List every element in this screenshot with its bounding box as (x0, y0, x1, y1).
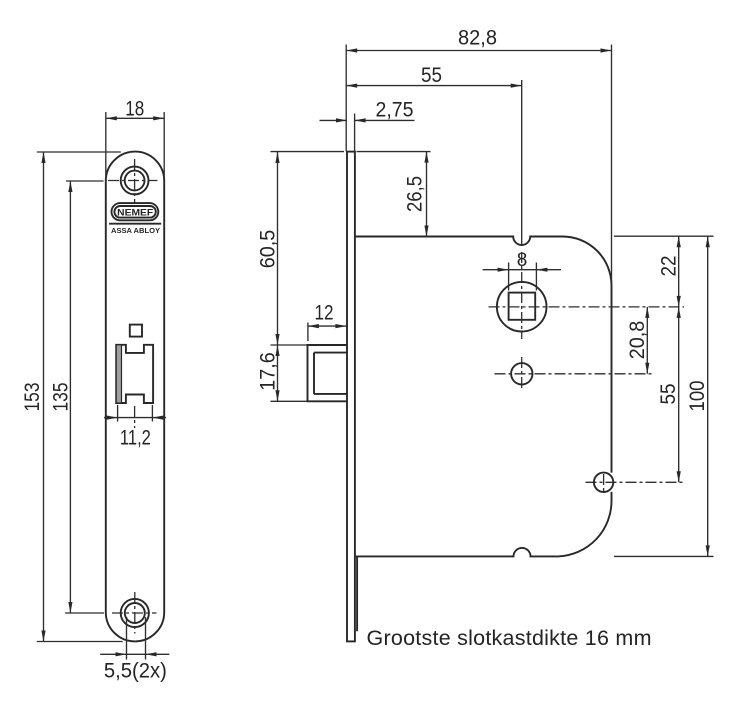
bottom hole centerlines (112, 612, 157, 614)
extension line top for dim 135 (66, 180, 104, 182)
small square hole (130, 325, 142, 337)
faceplate side bar (347, 152, 355, 642)
svg-text:20,8: 20,8 (626, 321, 649, 360)
extension line bottom for dim 153 (37, 641, 123, 643)
svg-text:22: 22 (658, 256, 681, 277)
spindle hole (497, 282, 547, 332)
side fixing hole (594, 473, 613, 492)
dimension line 18 (106, 117, 164, 119)
separator line under logo (109, 223, 161, 225)
small hole centerlines (495, 373, 653, 375)
svg-text:ASSA ABLOY: ASSA ABLOY (111, 226, 160, 235)
top screw hole (121, 167, 149, 195)
svg-text:NEMEF: NEMEF (117, 208, 153, 219)
svg-text:55: 55 (657, 384, 680, 405)
extension lines top dims (345, 45, 347, 152)
svg-text:135: 135 (49, 383, 72, 412)
NEMEF logo (112, 203, 159, 220)
svg-text:11,2: 11,2 (120, 427, 151, 450)
svg-text:100: 100 (686, 381, 709, 412)
extension lines right dims (614, 235, 714, 237)
svg-text:2,75: 2,75 (376, 99, 414, 122)
svg-text:153: 153 (21, 383, 44, 412)
dimension 2,75 (320, 119, 348, 121)
svg-text:55: 55 (421, 64, 442, 87)
extension lines for dim 5,5(2x) (126, 617, 128, 660)
latch side view (308, 345, 348, 401)
dimension line 60,5 + 17,6 (277, 152, 279, 401)
dimension line 11,2 (104, 417, 166, 419)
dimension line 153 (43, 152, 45, 642)
dimension line 22 / 55 right (678, 236, 680, 482)
small hole (511, 363, 532, 384)
spindle centerlines (489, 306, 685, 308)
svg-text:12: 12 (315, 302, 334, 325)
svg-text:82,8: 82,8 (458, 27, 497, 50)
extension line top for dim 153 (37, 151, 121, 153)
dimension line 135 (69, 181, 71, 613)
dimension line 5,5(2x) (100, 653, 169, 655)
svg-text:17,6: 17,6 (257, 352, 280, 391)
svg-text:60,5: 60,5 (257, 230, 280, 269)
svg-text:8: 8 (517, 250, 528, 271)
latch grey edge bar (116, 345, 121, 403)
lock case outline (355, 237, 612, 473)
dimension line 26,5 (426, 152, 428, 237)
svg-text:5,5(2x): 5,5(2x) (104, 660, 167, 683)
center line at latch dim (134, 406, 136, 428)
svg-text:18: 18 (125, 98, 144, 121)
extension lines for dim 18 (105, 112, 107, 177)
dimension line 100 (707, 236, 709, 556)
side hole centerlines (586, 481, 685, 483)
dimension line 82,8 (346, 50, 611, 52)
svg-text:26,5: 26,5 (404, 176, 427, 212)
extension lines left dims (271, 151, 345, 153)
bottom screw hole (121, 599, 149, 627)
extension line for 26,5 (357, 151, 431, 153)
latch cutout front view (116, 345, 153, 403)
dimension line 20,8 (646, 307, 648, 374)
case inner edge below (356, 556, 358, 631)
extension line bottom for dim 135 (65, 612, 104, 614)
dimension 8 (508, 263, 510, 291)
extension lines for dim 11,2 (117, 405, 119, 422)
top hole centerlines (108, 180, 158, 182)
faceplate capsule outline (106, 152, 164, 642)
dimension line 55 top (346, 85, 522, 87)
dimension 12 (307, 323, 309, 342)
svg-text:Grootste slotkastdikte 16 mm: Grootste slotkastdikte 16 mm (367, 626, 652, 650)
spindle square 8mm (509, 293, 536, 320)
